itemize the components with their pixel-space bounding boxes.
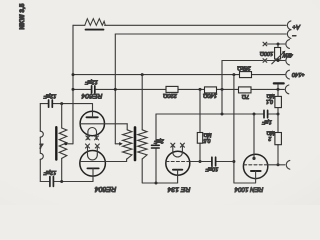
RE134 anode bar [173, 169, 182, 171]
node tap T1 [64, 142, 67, 145]
terminal y60 [286, 56, 290, 65]
wire row y44 [267, 43, 285, 45]
RE134 filament X right [180, 143, 184, 147]
tube REN1004 circle [243, 154, 267, 178]
tube1 anode bar [86, 116, 97, 118]
interstage left winding bottom lead to tube2 grid [126, 159, 128, 162]
transformer T1 winding zigzag [59, 128, 67, 158]
capacitor 12uF bottom [50, 177, 54, 187]
interstage tap wire with arrow [115, 143, 120, 145]
potentiometer leads [277, 44, 279, 61]
wire +140 rail [73, 74, 285, 76]
REN anode lead [253, 114, 255, 158]
REN grid dashed [244, 164, 268, 166]
capacitor 1uF [264, 110, 268, 117]
interstage right winding top lead [141, 75, 143, 130]
tube2 anode bar [87, 167, 98, 169]
node x62 y103 [60, 102, 63, 105]
tube1 filament legs [88, 132, 97, 140]
tube1 filament X left [86, 136, 90, 140]
potentiometer arrow [272, 53, 284, 64]
RE134 filament legs [173, 146, 183, 152]
resistor slider bar [86, 29, 104, 31]
REN cathode lead [255, 171, 257, 179]
node x234 y161 [232, 160, 235, 163]
capacitor 12uF left [49, 100, 53, 107]
node x254 y114 [253, 113, 256, 116]
REN anode dot [252, 157, 255, 160]
REN grid wire out [268, 164, 285, 166]
resistor 140 box [205, 87, 217, 93]
coil antenna branch x40 [39, 104, 41, 182]
wire heater rail y89 [73, 88, 284, 90]
capacitor 12uF top [92, 86, 95, 93]
RE134 anode lead [177, 170, 179, 183]
terminal A+ [287, 21, 291, 30]
wire x278 segments [277, 89, 279, 164]
interstage right winding bottom lead [142, 159, 177, 183]
terminal grid [286, 160, 290, 169]
interstage transformer right winding [138, 130, 147, 159]
transformer T1 tap wire [66, 143, 73, 145]
wire top bus A+ left segment [73, 24, 85, 26]
node x278 y60 [277, 59, 280, 62]
node x62 y181 [60, 180, 63, 183]
tube RE604 upper circle [80, 111, 104, 135]
node x200 y161 [199, 160, 202, 163]
interstage transformer left winding [123, 130, 132, 159]
wire x200 grid leak [199, 89, 201, 161]
resistor 7ohm box [239, 87, 252, 93]
resistor 0.1M box [275, 96, 282, 107]
capacitor 2uF plates [152, 145, 160, 148]
wire RE134 grid to cap [190, 161, 234, 163]
tube2 filament X left [86, 144, 90, 148]
terminal y44 [286, 40, 290, 49]
interstage transformer core [134, 127, 137, 160]
RE134 filament X left [171, 143, 175, 147]
node x115 y89 [114, 88, 117, 91]
wire top bus A+ right segment [105, 24, 287, 26]
tube2 filament dome [88, 155, 98, 160]
RE134 filament dome [173, 152, 183, 157]
RE134 grid dashed [166, 161, 190, 163]
tube2 filament X right [95, 144, 99, 148]
wire x222 from pot row [221, 61, 223, 115]
capacitor 2uF lead from bus [155, 114, 157, 183]
transformer T1 lead bottom [61, 158, 63, 181]
resistor 0.5M box [197, 133, 202, 144]
tube2 grid line [80, 161, 127, 163]
X connector y60 [263, 59, 267, 63]
wire x234 [234, 75, 256, 183]
wire x115 vertical [114, 34, 116, 144]
capacitor 10uF [212, 157, 216, 166]
antenna bar [274, 82, 284, 84]
node x222 y89 [221, 88, 224, 91]
wire anode tube1 y103 [40, 104, 92, 112]
coil loop 1 [40, 131, 43, 137]
node x73 y89 [72, 88, 75, 91]
node x278 y89 [277, 88, 280, 91]
tube1 grid line [80, 123, 127, 125]
tube2 filament legs [88, 147, 98, 155]
tube1 filament X right [95, 136, 99, 140]
transformer T1 core [55, 127, 57, 159]
wire row y60 [222, 60, 285, 62]
node x222 y114 [221, 113, 224, 116]
node x278 y164 [277, 163, 280, 166]
bus y114 [156, 113, 278, 115]
X connector y44 [263, 42, 267, 46]
terminal y89 [285, 85, 289, 94]
transformer T1 secondary lead top [61, 104, 63, 128]
tube RE134 circle [166, 151, 190, 175]
wire ground rail bottom [40, 181, 93, 183]
REN cathode bar [251, 170, 261, 172]
coil loop 2 [40, 153, 43, 159]
tube1 anode lead inside [92, 111, 94, 117]
wire bus minus [115, 33, 286, 35]
node x73 y74 [72, 73, 75, 76]
node x156 y183 [155, 182, 158, 185]
tube2 anode lead [92, 168, 94, 181]
resistor R-heater zigzag [85, 19, 106, 26]
interstage transformer left winding lead from tube1 grid [126, 124, 128, 130]
terminal +140 [286, 70, 290, 79]
tube1 filament dome [88, 128, 97, 132]
node x200 y89 [199, 88, 202, 91]
tube RE604 lower circle [80, 151, 106, 177]
terminal minus [287, 30, 291, 39]
antenna stem [277, 84, 279, 89]
wire x73 vertical [72, 25, 74, 144]
node x142 y74 [141, 73, 144, 76]
resistor 25k box [240, 72, 252, 78]
potentiometer box [275, 48, 281, 60]
resistor 2M box [275, 133, 282, 145]
node x278 y44 [277, 43, 280, 46]
node x278 y114 [277, 113, 280, 116]
resistor 220 box [166, 86, 178, 92]
node x234 y74 [232, 73, 235, 76]
